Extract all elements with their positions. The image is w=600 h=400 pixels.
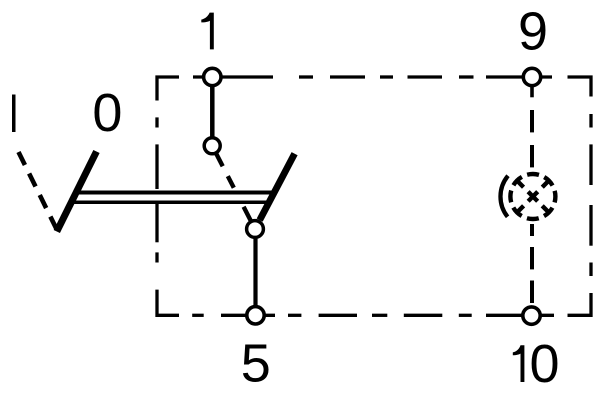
label position I <box>12 95 16 133</box>
svg-text:0: 0 <box>92 83 122 143</box>
rocker bar bottom line <box>73 200 270 204</box>
wire: housing top edge right corner <box>568 77 592 97</box>
fixed contact of terminal 1 <box>204 138 220 154</box>
label terminal 10 <box>513 334 560 394</box>
dashed blade alternate position <box>216 154 251 221</box>
wire: housing top edge dash b <box>330 75 365 78</box>
wire: housing top edge dash-dot (left corner) <box>157 77 179 101</box>
lamp L (illumination) dashed circle <box>510 174 555 219</box>
wire: housing top edge dash c <box>380 75 393 78</box>
pivot contact of terminal 5 <box>247 221 264 238</box>
actuator lever solid (position 0) <box>57 152 97 232</box>
wire: pivot contact to terminal 5 <box>253 238 257 306</box>
wire: housing right edge dash a <box>589 114 592 128</box>
terminal 1 <box>204 68 221 85</box>
terminal 9 <box>523 68 540 85</box>
wire: housing bottom edge dash d <box>319 314 357 317</box>
wire: housing bottom edge left corner <box>157 290 179 316</box>
wire: housing left edge dash b (below rocker bar) <box>155 204 158 242</box>
wire: housing left edge dash c <box>155 117 158 127</box>
actuator lever dashed (position I) <box>19 152 58 230</box>
wire: housing bottom edge dash a <box>459 314 472 317</box>
wire: housing bottom edge right corner <box>568 293 592 315</box>
label terminal 9 <box>518 1 548 61</box>
wire: housing right edge dash c <box>589 205 592 246</box>
lamp L cross diagonal a <box>516 180 550 214</box>
wire: housing bottom edge dash b <box>404 314 443 317</box>
svg-text:9: 9 <box>518 1 548 61</box>
wire: housing top edge segment through terminal 9 <box>486 75 552 78</box>
wire: terminal 9 stub down <box>530 86 534 97</box>
terminal 5 <box>247 307 264 324</box>
wire: housing top edge segment through terminal 1 <box>193 75 273 78</box>
wire: housing bottom edge segment through terminal 5 <box>221 314 275 317</box>
wire: housing top edge dash a <box>299 75 313 78</box>
svg-text:5: 5 <box>241 333 271 393</box>
wire: housing bottom edge segment through terminal 10 <box>486 314 554 317</box>
wire: housing top edge dash e <box>459 75 474 78</box>
rocker bar top line <box>77 191 274 195</box>
lamp L outer arc <box>500 176 508 217</box>
terminal 10 <box>523 307 540 324</box>
wire: housing left edge dash b (above rocker bar) <box>155 144 158 189</box>
wire: housing bottom edge dash e <box>288 314 301 317</box>
label terminal 1 <box>201 13 214 50</box>
wire: dashed lamp feed from terminal 9 <box>530 110 534 167</box>
wire: housing bottom edge dash f <box>192 314 204 317</box>
label position 0 <box>92 83 122 143</box>
wire: dashed lamp return to terminal 10 <box>530 224 534 303</box>
wire: housing top edge dash d <box>408 75 443 78</box>
wire: housing right edge dash d <box>589 263 592 277</box>
wire: housing bottom edge dash c <box>372 314 387 317</box>
lamp L cross diagonal b <box>516 180 550 214</box>
label terminal 5 <box>241 333 271 393</box>
moving contact blade <box>260 154 295 220</box>
wire: housing right edge dash b <box>589 144 592 185</box>
wire: housing left edge dash a <box>155 252 158 262</box>
svg-text:0: 0 <box>529 334 559 394</box>
wire: terminal 1 to fixed contact <box>210 86 215 138</box>
